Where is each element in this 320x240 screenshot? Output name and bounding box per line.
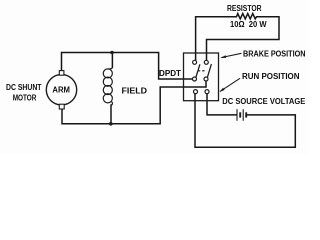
motor armature circle ARM [46,75,76,105]
resistor loop wiring with zigzag R [196,13,279,60]
field coil FIELD [103,67,112,106]
svg-text:BRAKE POSITION: BRAKE POSITION [243,49,306,59]
brush top [59,71,64,76]
svg-text:RUN POSITION: RUN POSITION [242,71,300,81]
svg-text:10Ω 20 W: 10Ω 20 W [230,19,267,29]
svg-text:DC SHUNT: DC SHUNT [6,82,42,92]
svg-text:DPDT: DPDT [159,68,182,78]
switch blade 2 [207,64,211,77]
svg-text:ARM: ARM [52,85,70,95]
wire: field branch top [111,53,113,68]
switch bottom contact 1 [194,90,198,94]
leader line to BRAKE POSITION [222,53,242,57]
brush bottom [59,104,64,109]
svg-text:MOTOR: MOTOR [13,92,37,102]
switch mechanical linkage (dashed) [198,70,205,72]
junction: field bottom node [109,122,113,126]
switch bottom contact 2 [205,90,209,94]
wire: DPDT bottom contact 2 to battery + [207,94,236,115]
switch blade 1 [196,64,200,77]
svg-text:RESISTOR: RESISTOR [227,3,262,13]
wire: DPDT bottom contact 1 to battery return loop [195,94,295,148]
wire: armature bottom lead, bottom bus to DPDT pole 2 [62,81,206,124]
wire: field branch bottom [110,105,112,124]
svg-text:FIELD: FIELD [122,86,148,96]
switch pivot contact 1 [193,77,197,81]
DPDT switch enclosure box [184,53,219,101]
switch pivot contact 2 [204,77,208,81]
battery DC source [237,109,246,121]
junction: field top node [110,51,114,55]
switch top contact 2 [204,60,208,64]
wire: armature top lead to DPDT pole 1 [62,53,193,80]
svg-text:DC SOURCE VOLTAGE: DC SOURCE VOLTAGE [222,96,305,106]
switch top contact 1 [193,60,197,64]
leader line to RUN POSITION [220,78,240,91]
